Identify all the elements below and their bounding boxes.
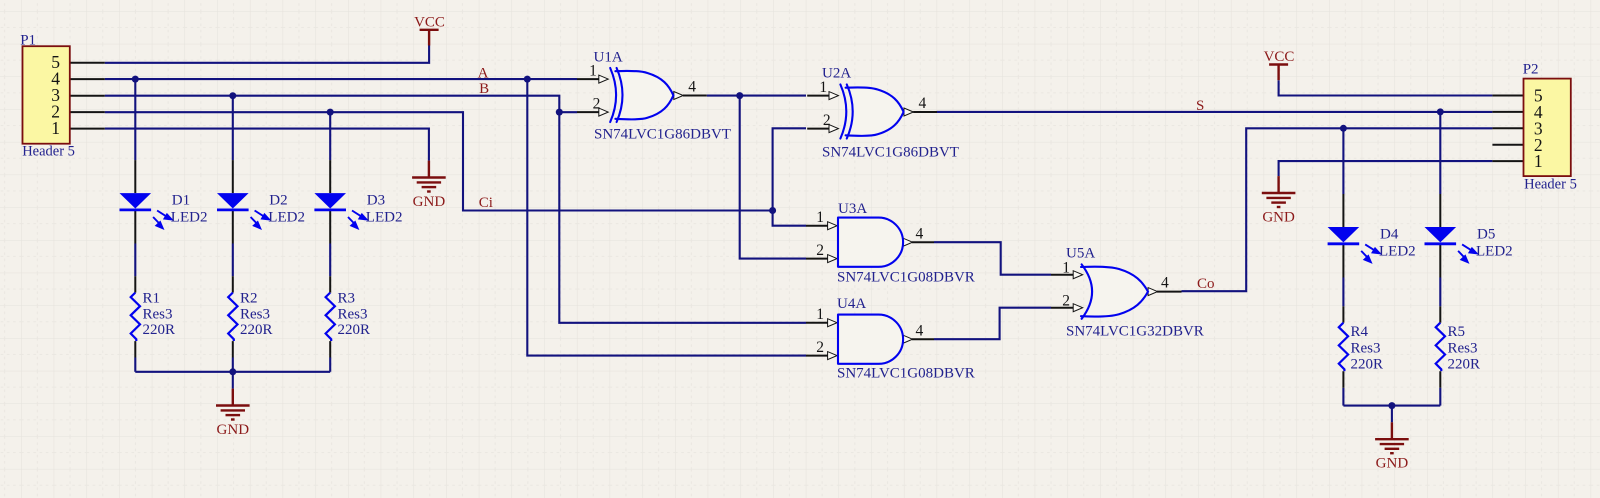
svg-text:1: 1 [1534, 151, 1543, 171]
svg-text:Res3: Res3 [143, 306, 173, 322]
svg-text:Co: Co [1197, 276, 1215, 292]
svg-text:U3A: U3A [838, 201, 867, 217]
svg-text:U2A: U2A [822, 66, 851, 82]
svg-text:P1: P1 [20, 33, 36, 49]
svg-text:VCC: VCC [414, 14, 445, 30]
svg-text:Header 5: Header 5 [1524, 177, 1577, 193]
svg-text:Ci: Ci [479, 195, 493, 211]
svg-text:R5: R5 [1448, 324, 1466, 340]
svg-text:220R: 220R [338, 322, 371, 338]
svg-text:B: B [479, 81, 489, 97]
svg-text:U4A: U4A [837, 296, 866, 312]
svg-text:220R: 220R [1448, 357, 1481, 373]
svg-text:R1: R1 [143, 290, 161, 306]
svg-text:U1A: U1A [594, 50, 623, 66]
svg-text:LED2: LED2 [1379, 244, 1416, 260]
svg-text:Res3: Res3 [338, 306, 368, 322]
svg-text:R2: R2 [240, 290, 258, 306]
svg-text:Res3: Res3 [1351, 340, 1381, 356]
svg-text:Header 5: Header 5 [22, 144, 75, 160]
svg-text:D1: D1 [172, 193, 190, 209]
svg-text:U5A: U5A [1066, 246, 1095, 262]
svg-text:S: S [1196, 98, 1204, 114]
svg-text:P2: P2 [1523, 62, 1539, 78]
svg-text:D3: D3 [367, 193, 385, 209]
svg-text:1: 1 [51, 118, 60, 138]
svg-text:220R: 220R [143, 322, 176, 338]
svg-text:D2: D2 [269, 193, 287, 209]
svg-text:Res3: Res3 [240, 306, 270, 322]
svg-text:SN74LVC1G08DBVR: SN74LVC1G08DBVR [837, 270, 975, 286]
svg-text:R3: R3 [338, 290, 356, 306]
svg-text:LED2: LED2 [366, 210, 403, 226]
svg-text:LED2: LED2 [1476, 244, 1513, 260]
svg-text:SN74LVC1G86DBVT: SN74LVC1G86DBVT [822, 145, 959, 161]
svg-text:A: A [478, 66, 489, 82]
svg-text:R4: R4 [1351, 324, 1369, 340]
svg-text:VCC: VCC [1264, 49, 1295, 65]
svg-text:D4: D4 [1380, 227, 1399, 243]
svg-text:SN74LVC1G86DBVT: SN74LVC1G86DBVT [594, 127, 731, 143]
svg-text:D5: D5 [1477, 227, 1495, 243]
svg-text:SN74LVC1G32DBVR: SN74LVC1G32DBVR [1066, 324, 1204, 340]
svg-text:SN74LVC1G08DBVR: SN74LVC1G08DBVR [837, 366, 975, 382]
svg-text:Res3: Res3 [1448, 340, 1478, 356]
svg-text:LED2: LED2 [171, 210, 208, 226]
svg-text:220R: 220R [1351, 357, 1384, 373]
svg-text:LED2: LED2 [268, 210, 305, 226]
svg-text:220R: 220R [240, 322, 273, 338]
